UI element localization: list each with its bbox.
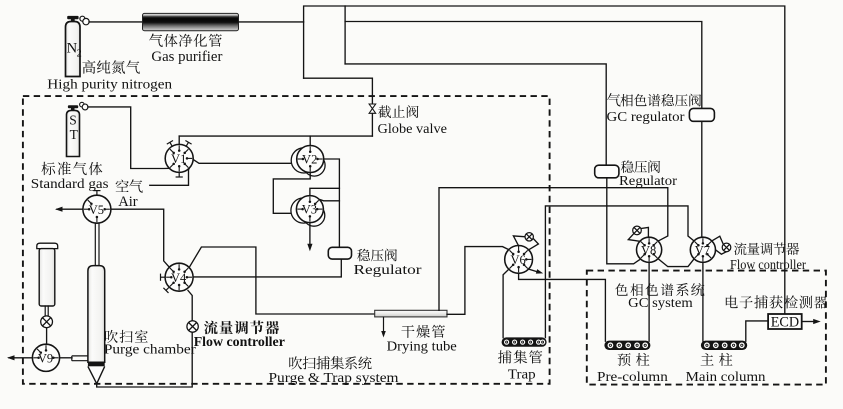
N2 cylinder outlet fitting <box>80 16 89 25</box>
flow controller FC1 symbol <box>187 321 198 332</box>
svg-text:S: S <box>69 113 77 128</box>
wire gas purifier to node A riser <box>239 21 304 23</box>
purge chamber frit (black band) <box>88 362 105 366</box>
valve V2 <box>291 146 325 177</box>
wire H3 bus to regulator R2 <box>345 64 606 165</box>
wire V7 bottom to main column left line <box>702 262 704 341</box>
wire ST outlet to valve V1 <box>88 107 170 169</box>
valve V6 <box>505 246 533 274</box>
label 吹扫室 <box>105 330 118 343</box>
wire V8 bottom to pre-column right line <box>648 262 650 341</box>
svg-text:Air: Air <box>118 194 138 210</box>
svg-text:V7: V7 <box>695 243 710 257</box>
valve V7 <box>690 237 715 262</box>
vent arrow below drying tube <box>383 317 385 332</box>
svg-text:V6: V6 <box>510 253 525 267</box>
purge chamber body <box>88 266 105 363</box>
drying tube <box>375 310 447 317</box>
label 吹扫捕集系统 <box>289 356 302 369</box>
label 干燥管 <box>401 325 414 338</box>
label 色相色谱系统 <box>615 283 628 295</box>
saddle wire V8 to V7 <box>658 259 694 267</box>
valve V8 <box>637 237 662 262</box>
svg-text:Pre-column: Pre-column <box>597 370 668 385</box>
wire branch riser at x345 <box>344 6 346 64</box>
label 流量调节器 FC-V7 <box>734 242 746 255</box>
wire V5 to V4 upper-left <box>111 209 169 267</box>
wire FC1 down and to purge chamber bottom <box>97 332 193 387</box>
label 高纯氮气 <box>82 60 95 74</box>
svg-text:GC system: GC system <box>628 296 693 311</box>
purge chamber cone bottom <box>88 366 105 383</box>
wire stub to V2 top <box>309 136 311 146</box>
label 截止阀 <box>378 105 391 118</box>
trap coil <box>502 337 547 346</box>
svg-text:V8: V8 <box>641 243 656 257</box>
label 气相色谱稳压阀 <box>607 93 621 106</box>
pre-column coil <box>604 341 650 350</box>
svg-text:Flow controller: Flow controller <box>194 335 285 350</box>
wire V2 bottom S-link to V3 left <box>273 173 310 214</box>
svg-text:Flow controller: Flow controller <box>730 257 806 272</box>
GC regulator rounded box <box>689 108 714 121</box>
wire main column right line to ECD <box>746 321 768 341</box>
wire syringe valve to V9 <box>46 328 48 345</box>
svg-text:Purge chamber: Purge chamber <box>104 343 196 358</box>
valve V4 <box>161 263 194 293</box>
wire N2 outlet to gas purifier <box>89 21 143 23</box>
flow controller FC-syringe symbol <box>41 316 53 328</box>
valve V9 <box>32 344 59 371</box>
svg-text:V2: V2 <box>302 153 317 167</box>
arrow out of V5 to left <box>57 208 83 210</box>
svg-text:High purity nitrogen: High purity nitrogen <box>47 78 172 93</box>
svg-text:Regulator: Regulator <box>354 263 422 278</box>
wire V4 upper-right to drying tube <box>189 247 375 314</box>
valve V1 <box>165 141 193 178</box>
wire V1 to V2 <box>193 160 297 164</box>
svg-text:V3: V3 <box>302 203 317 217</box>
main column coil <box>701 341 747 350</box>
svg-text:2: 2 <box>77 48 82 59</box>
label 稳压阀 R1 <box>357 249 370 262</box>
vent arrow below V3 <box>309 223 311 246</box>
regulator R1 rounded box <box>328 247 351 259</box>
label 气体净化管 <box>149 34 163 47</box>
purge & trap system dashed box <box>23 96 550 384</box>
wire R1 bottom to V4 right <box>193 259 341 277</box>
globe valve symbol <box>369 104 376 113</box>
flow controller at V8 hook wires <box>641 227 649 237</box>
regulator R2 rounded box <box>595 165 619 178</box>
label 空气 <box>116 179 129 192</box>
svg-text:Trap: Trap <box>508 368 536 383</box>
svg-text:Drying tube: Drying tube <box>387 339 457 354</box>
flow controller FC-V8 symbol <box>633 226 642 235</box>
wire riser + top bus to ECD (node A) <box>304 6 785 314</box>
svg-text:Standard gas: Standard gas <box>31 177 109 192</box>
svg-text:GC regulator: GC regulator <box>607 110 685 125</box>
syringe barrel <box>39 249 55 306</box>
svg-text:Main column: Main column <box>686 370 766 385</box>
N2 cylinder <box>66 22 81 77</box>
svg-text:T: T <box>70 127 79 142</box>
wire stub to V1 top <box>178 136 180 145</box>
flow controller FC-V7 symbol <box>722 243 731 252</box>
wire from mid-bus down to drying tube top <box>439 188 668 311</box>
wire jog to globe valve <box>304 78 373 103</box>
wire trap right line up and over to V7 <box>545 206 694 338</box>
label 捕集管 <box>498 350 512 363</box>
wire V9 to purge chamber side arm <box>60 357 72 359</box>
arrow out of ECD <box>802 321 816 323</box>
valve V5 <box>83 191 111 224</box>
svg-text:V1: V1 <box>171 152 186 166</box>
vent arrow out of V6 lower-right <box>528 269 537 272</box>
flow controller at V7 hook wires <box>712 236 724 244</box>
flow controller FC-V6 symbol <box>525 233 533 241</box>
wire air inlet to valve V1 <box>150 169 189 186</box>
svg-text:V5: V5 <box>89 203 104 217</box>
label 稳压阀 R2 <box>621 160 634 173</box>
purge chamber side arm <box>72 356 88 361</box>
label 主柱 <box>701 353 714 365</box>
svg-text:Regulator: Regulator <box>619 174 677 189</box>
wire globe valve down to V1/V2 header <box>371 114 373 137</box>
svg-text:V9: V9 <box>38 351 53 365</box>
label 预柱 <box>618 353 631 366</box>
label 电子捕获检测器 <box>726 295 738 308</box>
label 流量调节器 FC1 <box>204 321 218 335</box>
wire V2 right to V3 top and regulator R1 <box>324 159 340 247</box>
ECD box <box>768 314 802 329</box>
purge chamber stem from V5 <box>94 223 96 265</box>
syringe needle stem <box>44 306 46 316</box>
GC system dashed box <box>587 271 826 385</box>
wire V4 bottom to purge flow controller <box>188 291 192 321</box>
syringe plunger <box>37 243 58 248</box>
valve V3 <box>291 196 325 227</box>
wire header V1-top to globe valve <box>179 135 372 137</box>
arrow out of V9 to left <box>9 357 32 359</box>
ST cylinder outlet fitting <box>80 102 88 110</box>
label 标准气体 <box>41 162 55 175</box>
wire V6 bottom to pre-column left line <box>519 273 606 341</box>
svg-text:Gas purifier: Gas purifier <box>151 49 222 65</box>
wire drying tube right end up to V6 <box>447 247 509 315</box>
svg-text:Globe valve: Globe valve <box>378 122 448 137</box>
svg-text:Purge & Trap system: Purge & Trap system <box>269 371 399 386</box>
svg-text:V4: V4 <box>171 271 187 285</box>
svg-text:ECD: ECD <box>771 314 799 330</box>
wire V6 lower-left to trap left line <box>503 269 509 337</box>
wire R2 bottom to V8 lower-left <box>607 178 640 264</box>
wire H2 bus to GC regulator <box>345 22 702 109</box>
ST standard gas cylinder <box>67 110 80 156</box>
gas purifier tube <box>143 13 239 30</box>
wire GC regulator down to V7 top <box>701 121 703 237</box>
flow controller at V6 hook wires <box>513 236 525 246</box>
